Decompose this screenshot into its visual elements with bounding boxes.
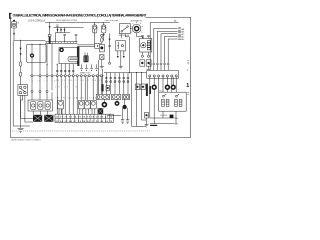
wire sub-bus lower <box>55 32 70 34</box>
wire harness to junction 3 <box>46 44 48 65</box>
wire coil chain drop <box>97 60 99 94</box>
harness stub component S1 <box>63 34 66 41</box>
ground G1 <box>17 128 23 132</box>
wire bus drop 4 <box>118 73 120 95</box>
wire SW1 pin b <box>125 34 129 37</box>
wire CC1 drop 5 <box>166 89 168 92</box>
injector I1 <box>58 100 64 114</box>
battery B1 <box>11 20 16 28</box>
node bus tap 2 <box>136 72 137 73</box>
node J1 top b <box>39 44 40 45</box>
wire NO link 1 <box>150 117 175 119</box>
inline connector ticks right <box>149 63 169 64</box>
svg-text:OVERALL ELECTRICAL WIRING DIAG: OVERALL ELECTRICAL WIRING DIAGRAM 4A-FE … <box>13 14 147 18</box>
wire right drops to box <box>150 65 168 71</box>
spark plug P1 <box>80 64 83 70</box>
wire harness drop4 cont <box>51 64 53 90</box>
relay block RB1 small <box>106 86 110 91</box>
wire CC1 drop 1 <box>149 77 151 118</box>
shorting clip SC1 <box>170 115 174 118</box>
connector arrow A6 <box>142 37 144 39</box>
wire drops terminal row to ECU <box>57 77 101 114</box>
node bus tap 1 <box>129 72 130 73</box>
water temp sensor WT1 <box>115 102 118 105</box>
terminal ring R2-3 <box>46 90 48 92</box>
wire harness drop3 cont <box>46 64 48 90</box>
terminal ring TB <box>109 62 111 64</box>
wire donut stems <box>154 77 173 85</box>
svg-text:AE,: AE, <box>181 38 185 41</box>
svg-text:4A-FE ENGINE CONTROL WIRING: 4A-FE ENGINE CONTROL WIRING <box>11 139 41 142</box>
wire TPS pins <box>118 51 124 58</box>
svg-text:23 24 25 26 27 28 29 30 31 32: 23 24 25 26 27 28 29 30 31 32 33 34 35 <box>56 120 113 123</box>
sensor box SB4 <box>135 84 139 90</box>
wire right L-run 4 <box>161 34 178 63</box>
wire SW1 pin a <box>121 34 123 39</box>
wire J1 inner a lower <box>31 57 33 62</box>
wire switch feed drop <box>128 37 130 73</box>
wire ISC pins down <box>143 52 149 55</box>
alternator A0 <box>130 22 143 33</box>
node J1 top a <box>31 44 32 45</box>
junction bar JB5 (hatched) <box>102 84 104 91</box>
svg-text:DLC3 A: DLC3 A <box>161 114 168 117</box>
oxygen sensor OX1 <box>102 103 106 107</box>
wire sub-bus upper <box>54 26 84 28</box>
node dot b <box>57 64 58 65</box>
wire bus long drop c <box>141 73 143 120</box>
wire R2-3 to filter <box>46 92 48 100</box>
connector arrow A2 <box>20 53 22 55</box>
capacitor C1 <box>121 108 124 123</box>
solenoid resistor block U2 <box>28 100 52 111</box>
svg-text:ALTERNATOR: ALTERNATOR <box>131 20 143 23</box>
junction bar JB2 (hatched) <box>77 46 79 66</box>
connector arrow A9 <box>57 29 59 31</box>
fusible link arrow <box>13 33 15 35</box>
spark plug P3 <box>90 64 93 70</box>
wire J1a long drop <box>31 62 33 90</box>
wire R2-4 drop <box>51 92 53 100</box>
junction connector JC2 (black) <box>44 115 53 122</box>
border frame top-right <box>146 16 191 18</box>
diagnostic box DB1 <box>159 92 187 111</box>
igniter U3 <box>59 47 78 63</box>
wire TPS mid ground <box>120 58 122 66</box>
wire J1b long drop <box>39 62 41 90</box>
wire sub-bus drop to harness <box>54 33 56 42</box>
wire R2-2 to filter <box>39 92 41 100</box>
wire sub-bus stub 3 <box>64 27 66 33</box>
wire fuse to relay <box>20 76 22 84</box>
wire alternator out <box>137 33 143 37</box>
wire bus long drop a <box>131 73 133 127</box>
wire SB2 ground stem <box>148 66 150 69</box>
wire bus drop 1 <box>105 73 107 95</box>
inline connector ticks S0 <box>56 25 58 26</box>
svg-text:FROM CHARGING SYSTEM: FROM CHARGING SYSTEM <box>56 19 78 22</box>
wire fuse to fuse <box>20 66 22 72</box>
vacuum sensor D2 <box>166 85 170 89</box>
harness stub S2 <box>75 35 78 42</box>
junction block J1 rounded box <box>27 44 46 62</box>
transistor pack Q1 (dark) <box>84 55 89 62</box>
wire CC1 drop 3 <box>158 77 160 92</box>
junction bar JB1 (hatched) <box>48 35 51 44</box>
junction ring JB <box>39 75 41 77</box>
terminal ring ISC-2 <box>148 55 150 57</box>
wire bottom gather <box>132 125 146 127</box>
wire drop to harness tap 1 <box>49 22 51 34</box>
terminal ring ISC-1 <box>142 55 144 57</box>
spark plug P2 <box>85 64 88 70</box>
wire J1 inner b <box>39 44 41 62</box>
wire right L-run 2 <box>154 29 178 63</box>
wire B+ horizontal bus <box>14 39 45 41</box>
wire TPS drop <box>102 69 104 94</box>
node dot a <box>46 64 47 65</box>
svg-text:1 9 9 4 COROLLA: 1 9 9 4 COROLLA <box>28 20 46 23</box>
sensor box SB3 <box>145 112 149 118</box>
vacuum sensor D3 <box>171 85 175 89</box>
margin index bracket <box>9 13 11 19</box>
svg-text:NO,: NO, <box>175 118 179 120</box>
inline connector ticks mid columns <box>105 77 129 78</box>
inline connector ticks row <box>56 70 74 71</box>
svg-text:AD,: AD, <box>181 36 185 39</box>
wire CC1 drop 6 <box>171 77 173 92</box>
terminal ring R2-1 <box>31 90 33 92</box>
wire CC1 drop 7 <box>175 77 177 92</box>
wire DB1 out left <box>162 111 164 118</box>
junction row line <box>30 75 104 77</box>
svg-text:SPARK PLUG: SPARK PLUG <box>80 71 92 74</box>
condenser box X1 <box>100 55 104 60</box>
ECU connector strip U1 <box>55 114 114 122</box>
main sensor bus <box>104 72 146 74</box>
connector arrow A5 <box>109 39 111 41</box>
wire OX1 stem <box>103 99 105 102</box>
wire sub-bus stub 1 <box>57 27 59 33</box>
connector arrow A10 <box>60 29 62 31</box>
injector I2 <box>78 100 84 114</box>
wire igniter pins to terminal row <box>57 64 73 76</box>
noise filter ring NF1 <box>31 54 34 57</box>
junction bar JB4 (hatched) <box>149 86 151 94</box>
wire left long drop <box>13 40 30 126</box>
wire drop c elbow <box>142 119 147 121</box>
wire right L-run 3 <box>157 31 177 63</box>
knock sensor KS1 <box>122 105 126 109</box>
ignition coil chain <box>101 34 104 44</box>
sensor connector row boxes <box>96 94 129 99</box>
junction ring JA <box>31 75 33 77</box>
sensor box SB5 <box>141 84 145 90</box>
noise filter ring NF2 <box>60 48 63 51</box>
wire shield link <box>107 115 121 117</box>
wire ground stem left <box>21 95 23 128</box>
wire NO link 2 <box>150 123 175 125</box>
wire right L-run 6 <box>168 39 177 63</box>
svg-text:AB,: AB, <box>181 30 185 33</box>
wire IGN branch to coil <box>102 37 104 40</box>
sensor box SB1 <box>140 60 145 66</box>
ground G4 <box>147 69 151 71</box>
throttle position sensor TPS <box>116 41 126 51</box>
wire sub-bus stub 2 <box>60 27 62 33</box>
ISC valve V1 <box>140 35 152 52</box>
wire coil ground <box>101 60 103 67</box>
ground G2 <box>100 67 104 69</box>
junction connector JC3 (black) <box>98 108 104 114</box>
connector arrow A4 <box>103 34 105 36</box>
junction ring JC <box>46 75 48 77</box>
connector arrow A11 <box>64 29 66 31</box>
wire Q1 pins top <box>85 53 87 56</box>
wire relay out 2 <box>25 95 33 122</box>
svg-text:10 11 12 13 14 15 16 17 18 19: 10 11 12 13 14 15 16 17 18 19 20 21 22 <box>56 116 113 119</box>
flat harness cable W1 <box>45 42 77 44</box>
wire battery positive feed <box>13 28 15 33</box>
connector arrow A3 <box>49 26 51 28</box>
wire fuse AM2 down <box>94 33 96 45</box>
connector stack CS1 <box>178 28 185 42</box>
junction connector JC1 (black) <box>33 115 42 122</box>
fuse IGN 7.5A <box>19 72 22 76</box>
ignition switch SW1 <box>119 24 130 34</box>
wire bus drop 5 <box>123 73 125 95</box>
svg-text:1: 1 <box>186 83 189 89</box>
svg-text:Cont. next page: Cont. next page <box>105 19 119 22</box>
injector I4 <box>91 100 97 114</box>
wire fuse IGN down <box>103 33 105 40</box>
vacuum sensor D1 <box>152 85 156 89</box>
ground G5 <box>145 125 149 127</box>
wire DB1 out right <box>175 111 177 124</box>
wire R2-1 to filter <box>31 92 33 100</box>
border frame right <box>190 17 192 137</box>
fuse AM2 <box>93 22 97 33</box>
check connector CC1 <box>147 70 179 78</box>
border frame bottom <box>10 136 191 138</box>
wire right L-run 5 <box>165 36 178 63</box>
fuse EFI 15A <box>19 62 22 67</box>
wire harness to junction 4 <box>51 44 53 65</box>
wire KS1 stem <box>124 99 126 105</box>
sensor box SB2 <box>146 60 151 66</box>
connector CN1 <box>95 44 101 49</box>
wire bus long drop b <box>136 73 138 127</box>
ignition main wire <box>109 33 111 62</box>
wire bus drop 2 <box>110 73 112 95</box>
node bus tap 3 <box>141 72 142 73</box>
spark plug P4 <box>95 64 98 70</box>
wire bus drop 3 <box>114 73 116 95</box>
terminal ring row T1-T12 <box>56 75 102 77</box>
capacitor C2 <box>126 108 129 123</box>
wire WT1 stem <box>116 99 118 102</box>
wire main feed down-left <box>13 35 15 40</box>
fuse IGN <box>102 22 106 33</box>
connector arrow A1 <box>20 48 22 50</box>
terminal rings mid columns <box>105 81 129 83</box>
wire top feed bus <box>45 21 110 23</box>
wire right L-run 1 <box>150 23 178 64</box>
EFI main relay R1 <box>18 85 28 96</box>
ground G3 <box>119 67 123 69</box>
svg-text:AC,: AC, <box>181 33 185 36</box>
ECU dashed outline <box>12 130 150 132</box>
terminal ring R2-2 <box>39 90 41 92</box>
margin code marks <box>186 61 189 95</box>
wire J1 inner a <box>31 44 33 53</box>
bonding bar BB1 <box>150 125 157 126</box>
junction bar JB3 (hatched) <box>146 84 148 96</box>
border frame left <box>9 13 11 137</box>
node fuse tap <box>20 40 21 41</box>
wire harness tail double <box>77 45 95 47</box>
ignition coil T2 <box>99 44 104 52</box>
connector arrow A7 <box>117 56 119 58</box>
injector I3 <box>84 100 90 114</box>
svg-text:NO,: NO, <box>175 124 179 126</box>
wire CC1 drop 2 <box>153 89 155 124</box>
wire SW1 to alternator <box>130 28 132 30</box>
inline connector ticks B <box>108 45 110 46</box>
svg-text:AA,: AA, <box>181 28 185 31</box>
wire SB3 ground stem <box>146 118 148 124</box>
connector arrow A8 <box>123 56 125 58</box>
junction ring JD <box>51 75 53 77</box>
wire relay out 1 <box>21 95 34 118</box>
wire U2 pins down <box>33 111 47 115</box>
wire CC1 drop 4 <box>162 77 164 92</box>
wire injector drops <box>81 77 93 101</box>
wire bus drop 6 <box>127 73 129 95</box>
wire fuse branch <box>20 40 22 62</box>
